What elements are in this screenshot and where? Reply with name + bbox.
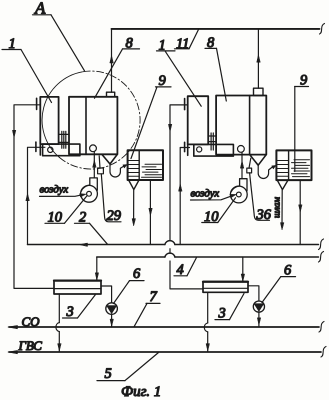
label 1 left [2, 36, 52, 103]
boiler unit 1 narrow vessel [40, 97, 58, 144]
unit 2 upper flange and hot pipe to exchanger 2 [168, 99, 203, 289]
svg-text:6: 6 [133, 266, 141, 282]
svg-text:воздух: воздух [191, 188, 220, 200]
top flue-gas pipe 11 [112, 24, 325, 35]
filter 1 outlet to bus [149, 180, 152, 245]
valve square 29 (unit 1) [98, 156, 121, 222]
label 10 left [45, 196, 87, 226]
GVS supply line [8, 347, 326, 358]
unit 1 lower flange and feed pipe from bus [26, 142, 45, 244]
unit 2 chimney stub [254, 88, 264, 95]
svg-text:ГВС: ГВС [18, 338, 43, 353]
label 6 right [262, 262, 296, 302]
boiler unit 2 wide vessel [216, 96, 266, 155]
unit 1 air duct up to burner [93, 152, 96, 178]
unit 1 vessel divider [85, 97, 87, 155]
svg-text:29: 29 [107, 208, 122, 224]
svg-text:3: 3 [218, 305, 226, 321]
filter 1 funnel and ash drop arrow [129, 180, 139, 226]
heating bus 4 [97, 252, 324, 263]
label 10 right [202, 198, 236, 225]
unit 1 chimney stub [107, 92, 115, 97]
unit 2 air blower [230, 179, 247, 203]
label 8 right [205, 35, 226, 101]
unit 1 base circle [48, 147, 53, 152]
label 8 left [95, 35, 140, 98]
svg-text:воздух: воздух [40, 184, 69, 196]
label 7 [134, 289, 160, 327]
filter 2 outlet to bus [299, 180, 302, 244]
unit 2 base plinth [194, 144, 234, 156]
svg-text:11: 11 [176, 36, 189, 52]
pump 6 (right) [253, 301, 264, 327]
heat exchanger 3 (left) [54, 280, 101, 294]
exchanger 2 outlet to pump 6 [248, 286, 259, 301]
heat exchanger 3 (right) [203, 282, 248, 293]
label A [33, 0, 85, 71]
unit 2 U-trap to filter [258, 165, 273, 179]
unit 1 ash funnel [102, 155, 117, 165]
unit 2 vessel divider [249, 96, 251, 155]
unit 1 upper flange and hot water pipe to exchanger 1 [12, 98, 54, 288]
flue pipe unit 1 [110, 29, 113, 92]
CO supply line [8, 322, 324, 333]
unit 2 ash funnel [250, 155, 266, 165]
label vozduh 1 [40, 184, 87, 197]
circle A (dash-dot enclosure around left unit) [42, 71, 140, 169]
flue pipe unit 2 [257, 29, 260, 88]
unit 2 lower flange and feed from bus [179, 142, 190, 244]
unit 1 base plinth [43, 144, 80, 156]
unit 2 grate between vessels [208, 133, 216, 150]
exchanger 1 bottom outlet to GVS [56, 294, 61, 352]
unit 2 burner circle [238, 146, 245, 153]
exchanger 2 bottom outlet to GVS [204, 292, 209, 351]
label vozduh 2 [191, 188, 237, 201]
label 2 [75, 210, 108, 245]
svg-text:6: 6 [284, 262, 292, 278]
unit 1 air blower [81, 178, 98, 202]
svg-text:СО: СО [22, 314, 41, 329]
svg-text:36: 36 [256, 207, 272, 223]
label 11 [175, 29, 199, 52]
label 4 [174, 258, 197, 279]
label 6 left [114, 266, 145, 304]
label 5 [97, 353, 159, 383]
valve square 36 (unit 2) [247, 158, 270, 220]
unit 1 U-trap to filter [110, 164, 125, 178]
filter/economizer 9 (unit 1) [128, 150, 163, 180]
pump 6 (left) [106, 303, 118, 327]
label 1 right [157, 37, 202, 106]
exchanger 2 feed from bus 4 [241, 257, 244, 281]
label 9 right [295, 72, 309, 171]
exchanger 1 outlet to pump 6 [101, 286, 112, 303]
exchanger 1 feed from bus 4 [95, 257, 98, 280]
svg-text:шлам: шлам [272, 197, 282, 218]
label 3 left [63, 295, 96, 321]
unit 1 burner circle [90, 145, 97, 152]
boiler unit 2 narrow vessel [188, 96, 209, 144]
feed-water bus 2 (line to units) [28, 239, 324, 250]
filter/economizer 9 (unit 2) [276, 150, 311, 180]
unit 2 air duct up to burner [240, 152, 243, 178]
unit 1 grate between vessels [59, 131, 68, 148]
label 3 right [215, 294, 244, 322]
boiler unit 1 wide vessel [69, 97, 117, 155]
unit 2 base circle [197, 147, 202, 152]
label 9 left [131, 73, 171, 159]
svg-text:Фиг. 1: Фиг. 1 [121, 384, 161, 400]
svg-text:5: 5 [105, 366, 112, 382]
filter 2 funnel and sludge arrow [277, 180, 288, 230]
